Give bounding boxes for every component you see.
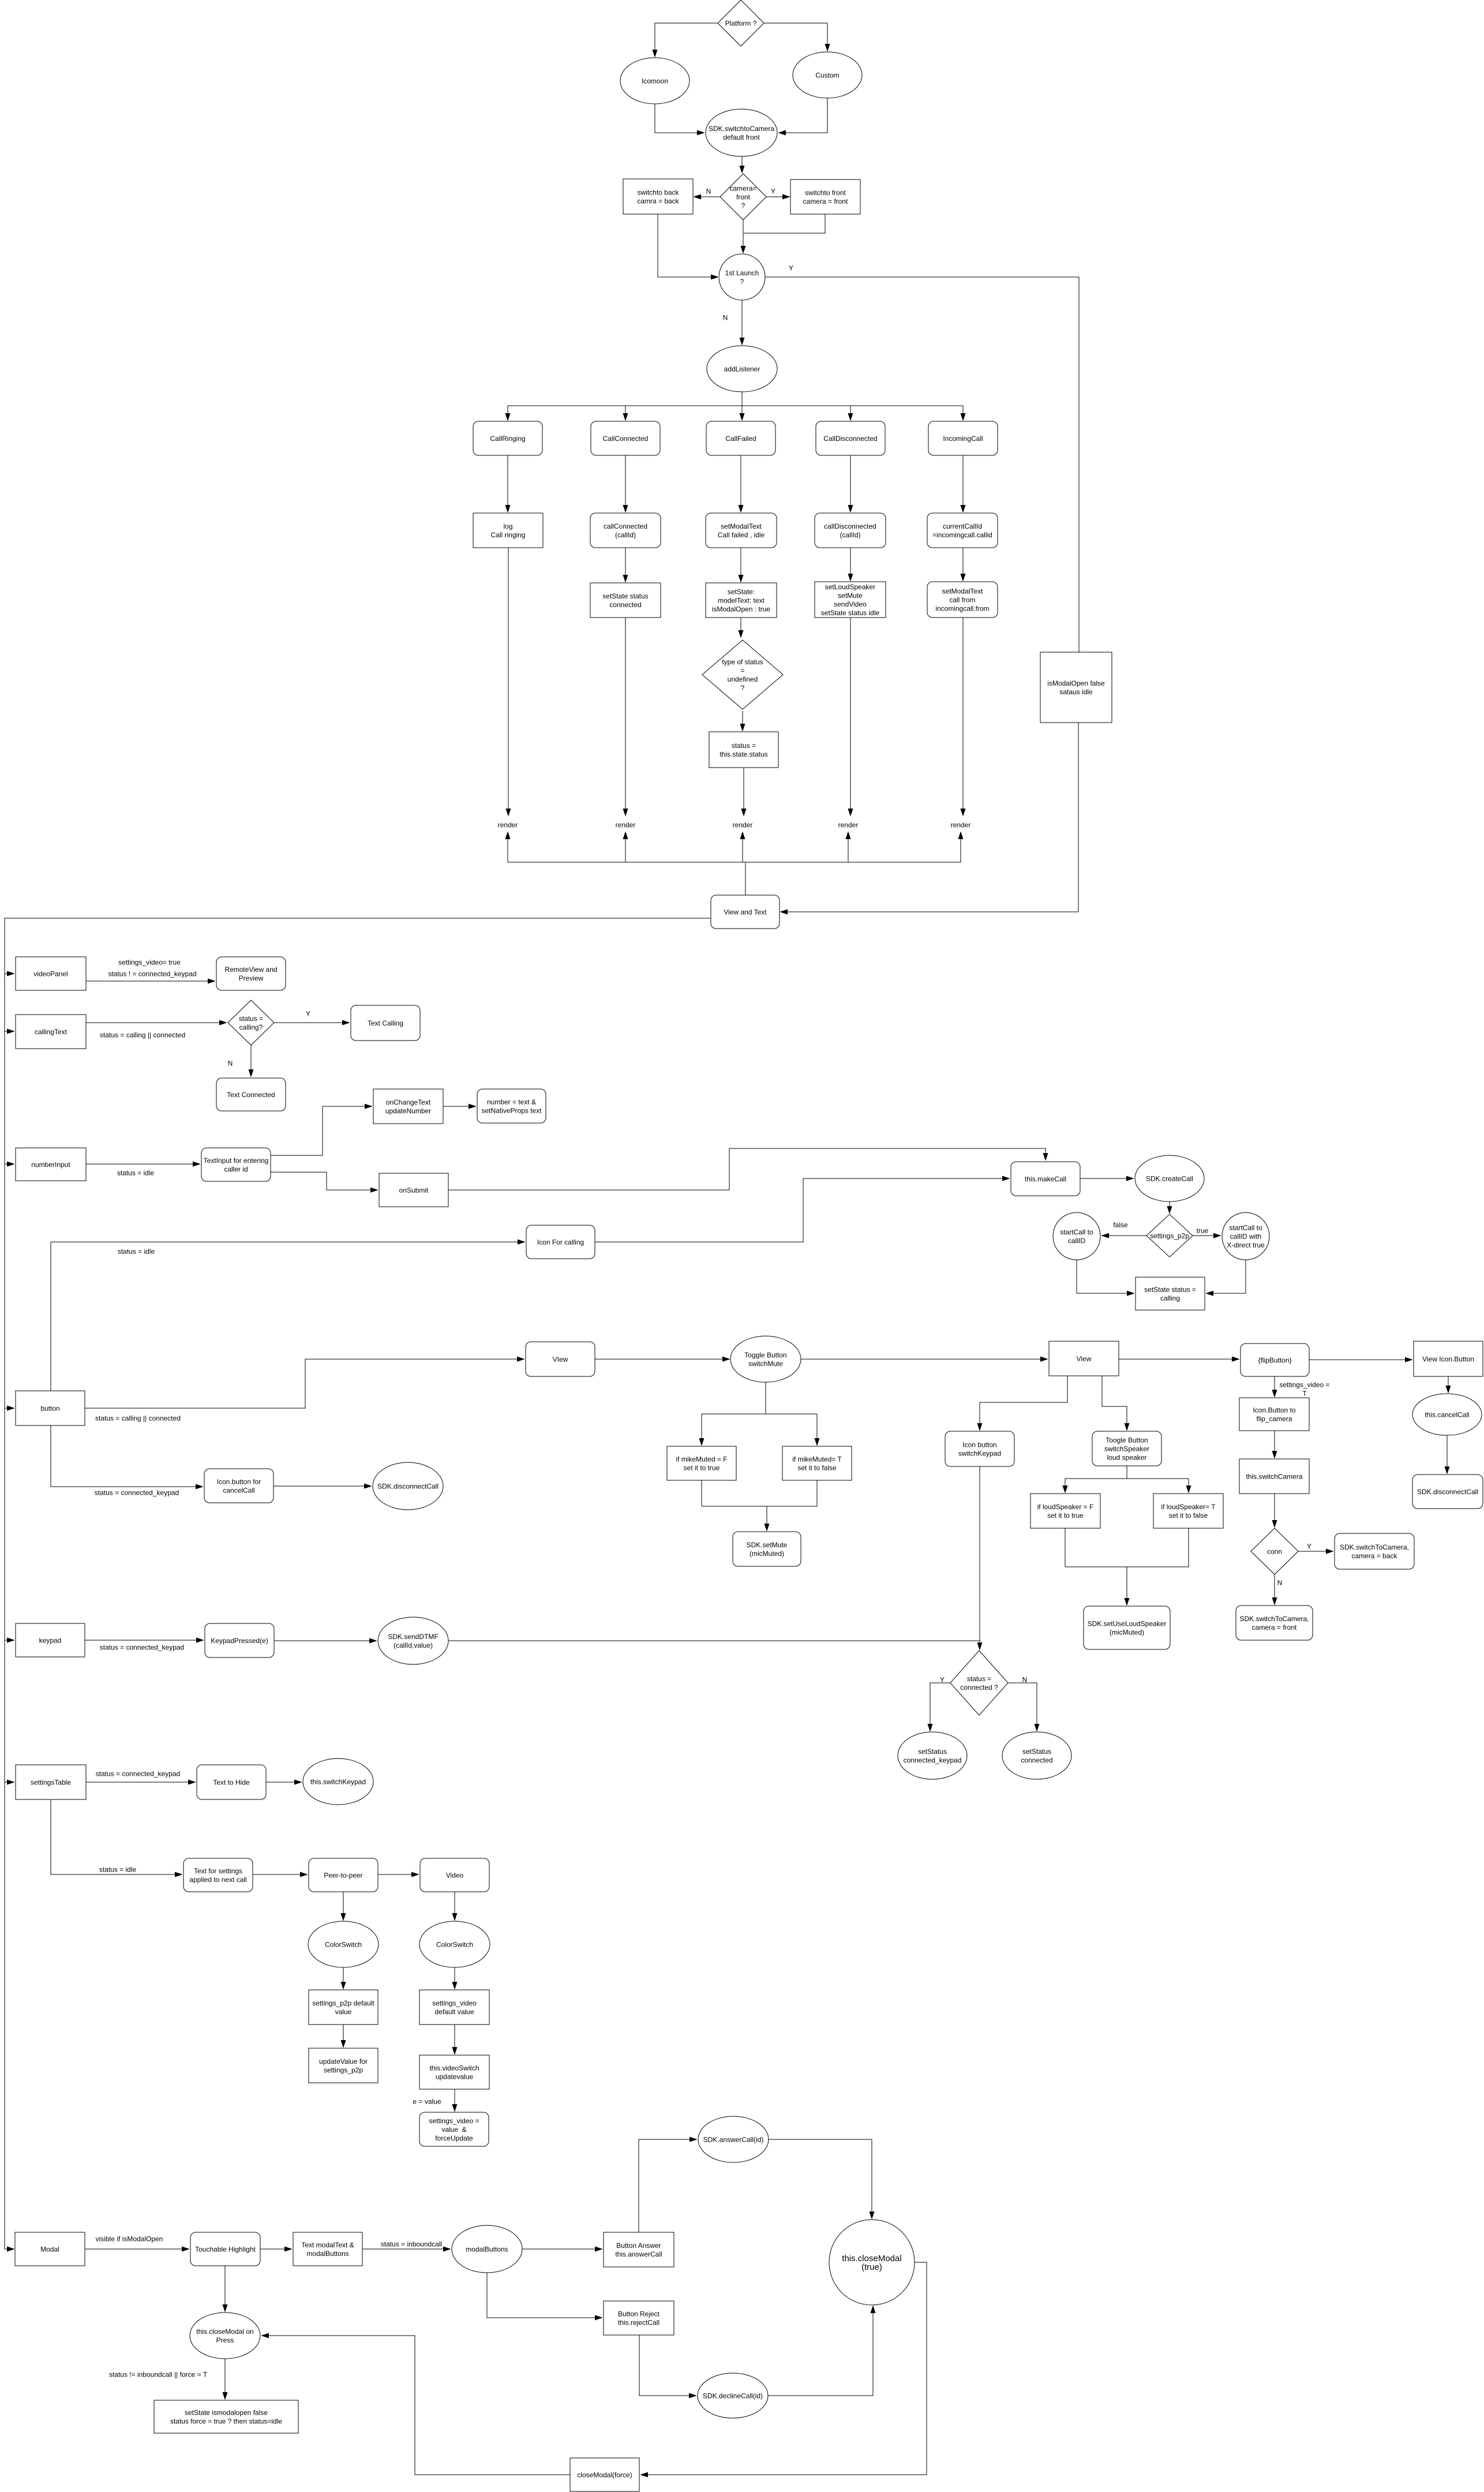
- svg-text:modalButtons: modalButtons: [306, 2250, 348, 2258]
- wire rail-&gt;button: [5, 1408, 14, 1409]
- svg-text:visible if isModalOpen: visible if isModalOpen: [96, 2235, 163, 2243]
- wire render collector bus: [508, 862, 961, 863]
- wire if mikeMuted=F join: [701, 1480, 702, 1506]
- wire callingText-&gt;status=calling?: [86, 1022, 226, 1023]
- svg-text:switchto back: switchto back: [637, 188, 679, 196]
- svg-text:callID with: callID with: [1230, 1232, 1262, 1240]
- svg-text:(true): (true): [861, 2262, 882, 2272]
- svg-text:calling?: calling?: [239, 1023, 263, 1031]
- svg-text:undefined: undefined: [728, 675, 758, 683]
- wire Video-&gt;ColorSwitch2: [454, 1892, 455, 1920]
- svg-text:SDK.switchToCamera,: SDK.switchToCamera,: [1340, 1543, 1409, 1551]
- svg-text:render: render: [838, 821, 859, 829]
- svg-text:Icon For calling: Icon For calling: [537, 1238, 584, 1246]
- svg-text:SDK.disconnectCall: SDK.disconnectCall: [1417, 1488, 1478, 1496]
- svg-text:set it to false: set it to false: [797, 1464, 837, 1472]
- process currentCallId: [927, 513, 998, 548]
- svg-text:loud speaker: loud speaker: [1107, 1453, 1147, 1461]
- svg-text:switchMute: switchMute: [748, 1360, 783, 1368]
- wire Platform-&gt;Icomoon: [655, 23, 718, 57]
- svg-text:N: N: [706, 187, 711, 195]
- svg-text:render: render: [616, 821, 636, 829]
- svg-text:flip_camera: flip_camera: [1256, 1415, 1292, 1423]
- wire onChangeText-&gt;number=text: [443, 1106, 475, 1107]
- decision 1st Launch?: [719, 254, 765, 300]
- process RemoteView and Preview: [216, 957, 286, 990]
- wire fanout-&gt;CallRinging: [507, 406, 508, 420]
- svg-text:status = calling || connected: status = calling || connected: [100, 1031, 185, 1039]
- wire keypad-&gt;KeypadPressed: [85, 1640, 203, 1641]
- svg-text:Text modalText &: Text modalText &: [301, 2241, 354, 2249]
- decision status=calling?: [228, 1000, 274, 1045]
- terminal addListener: [707, 346, 777, 392]
- wire flipButton-&gt;Icon.Button flip_camera: [1274, 1376, 1275, 1397]
- svg-text:onSubmit: onSubmit: [399, 1186, 429, 1194]
- wire CallFailed-&gt;setModalText: [740, 455, 741, 512]
- svg-text:if loudSpeaker = F: if loudSpeaker = F: [1037, 1503, 1094, 1511]
- terminal SDK.sendDTMF: [378, 1617, 448, 1664]
- svg-text:sendVideo: sendVideo: [834, 600, 867, 608]
- svg-text:ColorSwitch: ColorSwitch: [436, 1940, 473, 1948]
- process Modal: [15, 2232, 85, 2266]
- wire rail-&gt;keypad: [5, 1640, 14, 1641]
- process setState modelText: [706, 583, 777, 618]
- svg-text:SDK.setMute: SDK.setMute: [747, 1541, 788, 1549]
- terminal modalButtons: [452, 2225, 522, 2273]
- wire startCall-&gt;setState calling: [1077, 1260, 1134, 1293]
- svg-text:settings_video= true: settings_video= true: [118, 958, 181, 966]
- svg-text:this.rejectCall: this.rejectCall: [618, 2318, 659, 2326]
- wire loudSpeaker join bus: [1065, 1566, 1189, 1567]
- svg-text:?: ?: [741, 684, 745, 692]
- terminal this.switchKeypad: [303, 1758, 373, 1805]
- wire button-&gt;Icon For calling: [51, 1242, 524, 1391]
- wire status=calling N-&gt;Text Connected: [250, 1045, 252, 1076]
- svg-text:setState status =: setState status =: [1144, 1285, 1196, 1293]
- svg-text:status != inboundcall || force: status != inboundcall || force = T: [109, 2370, 208, 2378]
- process Text Connected: [216, 1078, 286, 1111]
- svg-text:CallRinging: CallRinging: [490, 435, 525, 443]
- terminal this.closeModal(true): [829, 2220, 915, 2305]
- svg-text:status = connected_keypad: status = connected_keypad: [100, 1643, 184, 1651]
- svg-text:setState:: setState:: [728, 588, 755, 596]
- svg-text:SDK.setUseLoudSpeaker: SDK.setUseLoudSpeaker: [1088, 1619, 1167, 1627]
- svg-text:View and Text: View and Text: [724, 908, 767, 916]
- svg-text:camera=: camera=: [729, 184, 756, 192]
- process SDK.switchToCamera back: [1335, 1533, 1414, 1569]
- terminal this.cancelCall: [1412, 1394, 1482, 1435]
- svg-text:if mikeMuted = F: if mikeMuted = F: [676, 1455, 727, 1463]
- wire type of status-&gt;status box: [742, 711, 743, 731]
- svg-text:settingsTable: settingsTable: [31, 1778, 71, 1786]
- svg-text:connected: connected: [1021, 1756, 1052, 1764]
- wire SDK.switchtoCamera-&gt;camera=front: [741, 156, 743, 173]
- process callConnected(callId): [590, 513, 661, 548]
- process Touchable Highlight: [190, 2232, 260, 2266]
- svg-text:N: N: [1277, 1578, 1283, 1587]
- svg-text:TextInput for entering: TextInput for entering: [204, 1157, 269, 1165]
- terminal this.closeModal on Press: [190, 2313, 260, 2359]
- terminal SDK.disconnectCall: [373, 1462, 443, 1510]
- svg-text:caller id: caller id: [224, 1165, 248, 1173]
- svg-text:button: button: [40, 1404, 59, 1412]
- process SDK.disconnectCall 2: [1412, 1475, 1483, 1509]
- svg-text:setStatus: setStatus: [1022, 1748, 1051, 1756]
- svg-text:status = inboundcall: status = inboundcall: [381, 2240, 442, 2248]
- event CallRinging: [473, 421, 542, 455]
- svg-text:true: true: [1197, 1226, 1209, 1234]
- process this.switchCamera: [1239, 1459, 1309, 1494]
- svg-text:value: value: [335, 2008, 352, 2016]
- svg-text:IncomingCall: IncomingCall: [943, 435, 983, 443]
- process Text for settings: [183, 1858, 253, 1892]
- svg-text:this.switchKeypad: this.switchKeypad: [310, 1778, 366, 1786]
- wire Touchable-&gt;closeModal on Press: [224, 2266, 226, 2311]
- process TextInput for entering caller id: [201, 1148, 271, 1181]
- svg-text:render: render: [498, 821, 518, 829]
- wire rail-&gt;videoPanel: [5, 973, 14, 974]
- svg-text:camera = back: camera = back: [1351, 1552, 1397, 1560]
- wire Modal-&gt;Touchable: [85, 2248, 189, 2250]
- wire settings_p2p default-&gt;updateValue: [343, 2025, 344, 2047]
- svg-text:VIew: VIew: [553, 1355, 568, 1363]
- wire collector-&gt;render4: [848, 832, 849, 862]
- process Icon.Button to flip_camera: [1239, 1398, 1309, 1431]
- wire if loudSpeaker=F join: [1065, 1528, 1066, 1567]
- svg-text:status = connected_keypad: status = connected_keypad: [95, 1488, 179, 1496]
- svg-text:addListener: addListener: [724, 365, 760, 373]
- svg-text:KeypadPressed(e): KeypadPressed(e): [211, 1637, 268, 1645]
- svg-text:camera = front: camera = front: [803, 197, 848, 205]
- wire switchKeypad-&gt;status=connected?: [979, 1466, 980, 1649]
- svg-text:status = idle: status = idle: [118, 1247, 155, 1255]
- wire camera=front N-&gt;switchto back: [694, 196, 720, 197]
- wire bus-&gt;if mikeMuted=T: [816, 1414, 818, 1445]
- svg-text:=incomingcall.callid: =incomingcall.callid: [932, 531, 992, 539]
- svg-text:SDK.switchToCamera,: SDK.switchToCamera,: [1239, 1615, 1309, 1623]
- process VIew: [526, 1342, 595, 1376]
- svg-text:SDK.answerCall(id): SDK.answerCall(id): [703, 2135, 764, 2143]
- svg-text:status = calling || connected: status = calling || connected: [95, 1414, 181, 1422]
- wire bus-&gt;if loudSpeaker=T: [1188, 1479, 1189, 1492]
- svg-text:Button Reject: Button Reject: [618, 2310, 660, 2318]
- wire switchSpeaker bus: [1065, 1478, 1189, 1479]
- svg-text:SDK.createCall: SDK.createCall: [1146, 1174, 1193, 1183]
- wire if mikeMuted=T join: [816, 1480, 818, 1506]
- svg-text:e = value: e = value: [413, 2097, 441, 2105]
- process Icon button switchKeypad: [945, 1431, 1014, 1466]
- svg-text:(callId,value): (callId,value): [394, 1641, 433, 1649]
- decision status=connected?: [950, 1651, 1008, 1715]
- wire button-&gt;VIew: [85, 1359, 524, 1408]
- wire fanout-&gt;CallConnected: [625, 406, 626, 420]
- svg-text:setStatus: setStatus: [918, 1748, 947, 1756]
- process isModalOpen false sataus idle: [1040, 652, 1112, 723]
- process View2: [1049, 1341, 1119, 1376]
- svg-text:connected ?: connected ?: [960, 1683, 998, 1692]
- svg-text:SDK.disconnectCall: SDK.disconnectCall: [377, 1482, 439, 1490]
- process onSubmit: [379, 1173, 448, 1207]
- svg-text:View Icon.Button: View Icon.Button: [1422, 1355, 1474, 1363]
- process this.makeCall: [1011, 1162, 1080, 1196]
- process settings_video default value: [419, 1990, 489, 2025]
- process callDisconnected(callId): [815, 513, 886, 548]
- wire modalButtons-&gt;Button Reject: [487, 2273, 602, 2318]
- process onChangeText updateNumber: [373, 1089, 443, 1124]
- wire Text to Hide-&gt;this.switchKeypad: [266, 1782, 301, 1783]
- process if mikeMuted=F: [667, 1446, 736, 1480]
- wire Button Answer-&gt;SDK.answerCall: [639, 2139, 696, 2232]
- svg-text:cancelCall: cancelCall: [223, 1486, 254, 1494]
- wire fanout-&gt;CallFailed: [741, 406, 743, 420]
- svg-text:=: =: [740, 667, 744, 675]
- svg-text:if mikeMuted= T: if mikeMuted= T: [792, 1455, 842, 1463]
- wire addListener-&gt;fanout stem: [741, 392, 743, 406]
- svg-text:closeModal(force): closeModal(force): [577, 2471, 632, 2479]
- wire startCall X-direct-&gt;setState calling: [1206, 1260, 1246, 1293]
- svg-text:Icon button: Icon button: [962, 1440, 996, 1449]
- process Toogle Button switchSpeaker: [1092, 1431, 1161, 1466]
- svg-text:SDK.declineCall(id): SDK.declineCall(id): [703, 2392, 763, 2400]
- svg-text:?: ?: [741, 201, 745, 209]
- process setState status=calling: [1136, 1277, 1205, 1310]
- svg-text:Custom: Custom: [815, 71, 839, 79]
- svg-text:SDK.switchtoCamera: SDK.switchtoCamera: [709, 125, 774, 133]
- wire ColorSwitch2-&gt;settings_video default: [454, 1967, 455, 1989]
- wire SDK.declineCall-&gt;closeModal(true): [768, 2306, 873, 2396]
- svg-text:keypad: keypad: [39, 1636, 62, 1644]
- svg-text:RemoteView and: RemoteView and: [224, 966, 277, 974]
- wire videoSwitch-&gt;settings_video=value: [454, 2089, 455, 2111]
- wire collector-&gt;render5: [960, 832, 961, 862]
- decision camera=front?: [720, 174, 766, 220]
- terminal startCall to callID: [1053, 1213, 1100, 1260]
- wire onSubmit-&gt;this.makeCall top: [448, 1148, 1045, 1190]
- process setState ismodalopen false: [154, 2400, 298, 2433]
- wire callDisconnected-&gt;setLoudSpeaker: [850, 548, 851, 581]
- wire Icon For calling-&gt;this.makeCall: [595, 1178, 1009, 1242]
- svg-text:T: T: [1302, 1389, 1307, 1397]
- process Button Answer: [604, 2232, 674, 2267]
- svg-text:log: log: [503, 522, 512, 530]
- wire Custom-&gt;SDK.switchtoCamera: [779, 98, 827, 133]
- svg-text:Button Answer: Button Answer: [616, 2242, 661, 2250]
- process status=this.state.status: [709, 732, 778, 768]
- wire 1st Launch N-&gt;addListener: [741, 300, 743, 345]
- svg-text:setState status idle: setState status idle: [821, 609, 880, 617]
- process setModalText Call failed: [706, 513, 777, 548]
- svg-text:Toggle Button: Toggle Button: [744, 1351, 786, 1359]
- process number=text: [477, 1089, 546, 1123]
- wire setModalText call from-&gt;render5: [962, 618, 964, 815]
- svg-text:startCall to: startCall to: [1229, 1223, 1262, 1232]
- svg-text:set it to true: set it to true: [684, 1464, 720, 1472]
- process switchto back: [623, 179, 693, 214]
- event CallDisconnected: [816, 421, 885, 455]
- svg-text:isModalOpen false: isModalOpen false: [1047, 679, 1105, 687]
- svg-text:status = idle: status = idle: [117, 1169, 155, 1177]
- svg-text:sataus idle: sataus idle: [1059, 688, 1093, 696]
- svg-text:this.state.status: this.state.status: [719, 750, 767, 758]
- svg-text:calling: calling: [1160, 1294, 1180, 1302]
- wire CallDisconnected-&gt;callDisconnected: [850, 455, 851, 512]
- svg-text:default front: default front: [723, 133, 760, 141]
- svg-text:Video: Video: [446, 1871, 464, 1879]
- svg-text:X-direct true: X-direct true: [1227, 1241, 1265, 1249]
- process setState status connected: [590, 583, 661, 618]
- wire camera=front Y-&gt;switchto front: [766, 196, 789, 197]
- svg-text:camera = front: camera = front: [1252, 1623, 1297, 1632]
- svg-text:CallDisconnected: CallDisconnected: [823, 435, 877, 443]
- svg-text:settings_video =: settings_video =: [429, 2117, 479, 2125]
- wire settings_p2p true-&gt;startCall X-direct: [1193, 1235, 1220, 1236]
- wire SDK.sendDTMF-&gt;join: [448, 1640, 980, 1641]
- svg-text:isModalOpen : true: isModalOpen : true: [712, 605, 771, 613]
- wire status=connected Y-&gt;keypad ellipse: [930, 1683, 950, 1731]
- wire fanout-&gt;CallDisconnected: [850, 406, 851, 420]
- process Button Reject: [604, 2301, 674, 2335]
- svg-text:false: false: [1113, 1221, 1128, 1229]
- terminal SDK.createCall: [1135, 1155, 1204, 1202]
- svg-text:Preview: Preview: [239, 974, 264, 982]
- svg-text:Modal: Modal: [40, 2245, 59, 2253]
- svg-text:updateValue for: updateValue for: [319, 2057, 368, 2066]
- wire log-&gt;render1: [508, 548, 509, 815]
- svg-text:Y: Y: [771, 187, 775, 195]
- process videoPanel: [16, 957, 86, 990]
- svg-text:connected: connected: [609, 601, 641, 609]
- wire modalButtons-&gt;Button Answer: [522, 2248, 602, 2250]
- process Text to Hide: [197, 1765, 266, 1799]
- wire bus-&gt;if mikeMuted=F: [701, 1414, 702, 1445]
- svg-text:status = connected_keypad: status = connected_keypad: [96, 1769, 180, 1778]
- svg-text:callConnected: callConnected: [604, 522, 647, 530]
- svg-text:{flipButton}: {flipButton}: [1258, 1356, 1291, 1364]
- svg-text:this.answerCall: this.answerCall: [615, 2250, 662, 2258]
- wire fanout bus: [508, 405, 963, 406]
- wire numberInput-&gt;TextInput: [86, 1163, 200, 1165]
- terminal SDK.declineCall(id): [698, 2373, 768, 2418]
- svg-text:switchto front: switchto front: [805, 189, 846, 197]
- wire settings_p2p false-&gt;startCall: [1102, 1235, 1146, 1236]
- svg-text:CallFailed: CallFailed: [725, 435, 756, 443]
- process button: [16, 1391, 85, 1425]
- process log Call ringing: [473, 513, 543, 548]
- wire currentCallId-&gt;setModalText call from: [962, 548, 964, 581]
- svg-text:set it to true: set it to true: [1047, 1511, 1084, 1520]
- svg-text:(micMuted): (micMuted): [750, 1550, 784, 1558]
- event CallFailed: [706, 421, 775, 455]
- svg-text:this.closeModal on: this.closeModal on: [196, 2328, 253, 2336]
- process setLoudSpeaker: [815, 582, 886, 618]
- wire CallConnected-&gt;callConnected: [625, 455, 626, 512]
- process Icon For calling: [526, 1225, 595, 1259]
- svg-text:set it to false: set it to false: [1169, 1511, 1208, 1520]
- terminal setStatus connected_keypad: [898, 1732, 967, 1779]
- wire Icomoon-&gt;SDK.switchtoCamera: [655, 104, 704, 133]
- wire Platform-&gt;Custom: [764, 23, 827, 51]
- svg-text:ColorSwitch: ColorSwitch: [325, 1940, 362, 1948]
- svg-text:front: front: [736, 193, 751, 201]
- wire IncomingCall-&gt;currentCallId: [962, 455, 964, 512]
- wire flipButton-&gt;View Icon.Button: [1309, 1359, 1412, 1360]
- wire ColorSwitch-&gt;settings_p2p default: [343, 1967, 344, 1989]
- process Text modalText &amp; modalButtons: [293, 2232, 362, 2266]
- svg-text:value &: value &: [441, 2126, 466, 2134]
- wire setState status-&gt;render2: [625, 618, 626, 815]
- svg-text:Icon.button for: Icon.button for: [217, 1477, 261, 1486]
- wire cancelCall-&gt;SDK.disconnectCall2: [1446, 1435, 1448, 1473]
- svg-text:connected_keypad: connected_keypad: [904, 1756, 962, 1764]
- wire Text for settings-&gt;Peer-to-peer: [253, 1874, 307, 1875]
- svg-text:number = text &: number = text &: [487, 1098, 536, 1106]
- wire status=calling Y-&gt;Text Calling: [274, 1022, 349, 1023]
- terminal setStatus connected: [1002, 1732, 1071, 1779]
- terminal startCall X-direct: [1222, 1213, 1269, 1260]
- wire View2-&gt;flipButton: [1119, 1359, 1239, 1360]
- process Peer-to-peer: [309, 1858, 378, 1892]
- wire button-&gt;Icon.button cancelCall: [51, 1425, 203, 1487]
- svg-text:Text Calling: Text Calling: [368, 1019, 403, 1027]
- wire View and Text-&gt;left rail-&gt;Modal: [5, 918, 711, 2249]
- wire 1st Launch Y-&gt;isModalOpen: [765, 277, 1079, 652]
- svg-text:Icon.Button to: Icon.Button to: [1253, 1406, 1295, 1414]
- wire CallRinging-&gt;log: [507, 455, 508, 512]
- svg-text:settings_p2p: settings_p2p: [324, 2066, 363, 2074]
- terminal ColorSwitch p2p: [308, 1921, 379, 1967]
- event CallConnected: [591, 421, 660, 455]
- svg-text:Y: Y: [940, 1675, 945, 1683]
- process if loudSpeaker=T: [1153, 1494, 1223, 1528]
- svg-text:SDK.sendDTMF: SDK.sendDTMF: [388, 1633, 438, 1641]
- terminal ColorSwitch video: [419, 1921, 490, 1967]
- svg-text:switchKeypad: switchKeypad: [958, 1449, 1001, 1457]
- wire SDK.answerCall-&gt;closeModal(true): [769, 2139, 872, 2218]
- wire switchMute stem: [765, 1382, 766, 1414]
- svg-text:settings_p2p default: settings_p2p default: [312, 1999, 374, 2007]
- decision conn: [1251, 1528, 1298, 1574]
- wire settingsTable-&gt;Text to Hide: [86, 1782, 195, 1783]
- svg-text:setModalText: setModalText: [721, 522, 762, 530]
- event IncomingCall: [928, 421, 998, 455]
- svg-text:currentCallId: currentCallId: [943, 522, 982, 530]
- wire Text modalText-&gt;modalButtons: [362, 2248, 450, 2250]
- wire callConnected-&gt;setState status: [625, 548, 626, 582]
- svg-text:(micMuted): (micMuted): [1110, 1628, 1144, 1636]
- svg-text:settings_p2p: settings_p2p: [1150, 1232, 1189, 1240]
- decision Platform?: [718, 0, 764, 46]
- svg-text:status =: status =: [239, 1015, 263, 1023]
- terminal Custom: [793, 52, 862, 98]
- wire Toggle switchMute-&gt;View2: [801, 1359, 1047, 1360]
- process switchto front: [790, 179, 860, 214]
- terminal SDK.answerCall(id): [698, 2116, 769, 2162]
- svg-text:?: ?: [740, 278, 744, 286]
- svg-text:setState ismodalopen false: setState ismodalopen false: [185, 2408, 268, 2416]
- svg-text:Touchable Highlight: Touchable Highlight: [195, 2245, 256, 2253]
- process if mikeMuted=T: [782, 1446, 852, 1480]
- svg-text:callingText: callingText: [35, 1028, 68, 1036]
- wire setState:-&gt;type of status: [740, 618, 741, 637]
- svg-text:1st Launch: 1st Launch: [725, 269, 759, 277]
- wire SDK.createCall-&gt;settings_p2p: [1169, 1202, 1170, 1213]
- wire isModalOpen-&gt;View and Text: [781, 723, 1078, 912]
- svg-text:N: N: [723, 313, 728, 321]
- svg-text:camra = back: camra = back: [637, 197, 679, 205]
- wire setModalText-&gt;setState:: [740, 548, 741, 582]
- svg-text:startCall to: startCall to: [1060, 1228, 1093, 1236]
- svg-text:Y: Y: [789, 264, 793, 272]
